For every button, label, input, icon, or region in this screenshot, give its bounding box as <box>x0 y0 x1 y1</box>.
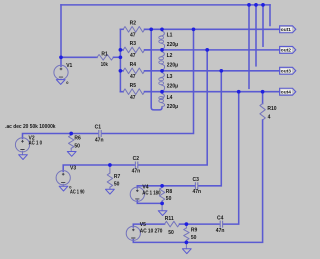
wire row1 <box>145 28 280 30</box>
svg-text:R7: R7 <box>114 174 121 180</box>
wire C3 to row3 <box>198 71 221 186</box>
node top rail c <box>261 3 265 7</box>
svg-text:50: 50 <box>74 144 80 150</box>
svg-text:47: 47 <box>130 53 136 59</box>
svg-text:AC 10 270: AC 10 270 <box>140 229 163 235</box>
resistor R8 <box>159 186 172 204</box>
wire top drop b <box>255 5 257 66</box>
wire V5 top <box>133 224 164 227</box>
wire V1 to top rail <box>60 5 62 66</box>
svg-text:L2: L2 <box>167 53 173 59</box>
wire V2 top <box>23 134 99 139</box>
ground R7 <box>106 189 115 194</box>
node L column row4 <box>160 90 164 94</box>
svg-text:out3: out3 <box>281 69 291 75</box>
wire V4 bottom <box>137 201 162 204</box>
svg-text:220µ: 220µ <box>167 104 178 110</box>
svg-text:V5: V5 <box>140 222 146 228</box>
voltage source V1 <box>54 63 73 79</box>
capacitor C4 <box>216 216 225 234</box>
svg-text:L1: L1 <box>167 33 173 39</box>
node bus-R4 <box>119 69 123 73</box>
wire row4 <box>145 91 280 93</box>
resistor R9 <box>184 224 198 242</box>
wire row3 <box>145 70 280 72</box>
svg-text:R4: R4 <box>130 62 137 68</box>
svg-text:R1: R1 <box>101 52 108 58</box>
svg-text:out4: out4 <box>281 90 291 96</box>
node row3 C3 tap <box>219 69 223 73</box>
svg-text:R2: R2 <box>130 21 137 27</box>
node C1 wire R6 tap <box>69 132 73 136</box>
node row1 C1 tap <box>192 27 196 31</box>
svg-text:47: 47 <box>130 95 136 101</box>
node L column row2 <box>160 48 164 52</box>
ground V2 <box>19 151 28 159</box>
wire right bus loop <box>151 29 162 110</box>
ground V3 <box>59 184 72 191</box>
wire top drop d <box>269 5 271 26</box>
voltage source V5 <box>126 222 162 241</box>
capacitor C2 <box>132 156 141 174</box>
resistor R5 <box>120 83 151 101</box>
svg-text:C1: C1 <box>95 124 102 130</box>
svg-text:50: 50 <box>168 230 174 236</box>
svg-text:4: 4 <box>268 114 271 120</box>
svg-text:V1: V1 <box>66 63 72 69</box>
resistor R10 <box>186 92 276 243</box>
node C3 wire R8 tap <box>160 184 164 188</box>
svg-text:C4: C4 <box>217 216 224 222</box>
inductor L3 <box>159 71 178 92</box>
svg-text:50: 50 <box>114 181 120 187</box>
svg-text:R11: R11 <box>165 216 174 222</box>
wire R9 to C4 <box>186 223 219 225</box>
wire V3 top <box>63 165 134 171</box>
flag out1 <box>280 26 296 33</box>
svg-text:out1: out1 <box>281 27 291 33</box>
wire C2 to row2 <box>138 50 207 165</box>
svg-text:AC 1 180: AC 1 180 <box>142 190 160 196</box>
node R9 bottom <box>185 241 189 245</box>
svg-text:47n: 47n <box>95 137 104 143</box>
wire top drop a <box>248 5 250 88</box>
resistor R3 <box>120 41 151 59</box>
node C2 wire R7 tap <box>108 163 112 167</box>
capacitor C1 <box>95 124 104 143</box>
svg-text:.ac dec 20 50k 10000k: .ac dec 20 50k 10000k <box>5 124 55 130</box>
node top rail b <box>254 3 258 7</box>
resistor R1 <box>61 52 120 68</box>
.ac directive text <box>5 124 55 130</box>
capacitor C3 <box>193 177 202 195</box>
node top rail a <box>247 3 251 7</box>
ground R8 <box>158 203 167 215</box>
svg-text:C2: C2 <box>133 156 140 162</box>
svg-text:R9: R9 <box>191 228 198 234</box>
node row4 R10 tap <box>261 90 265 94</box>
wire V4 top <box>137 186 195 188</box>
wire C4 to row4 <box>223 92 239 224</box>
wire top rail <box>61 4 270 6</box>
resistor R4 <box>120 62 151 80</box>
wire left bus <box>119 29 121 91</box>
svg-text:C3: C3 <box>193 177 200 183</box>
flag out4 <box>280 88 296 95</box>
svg-text:220µ: 220µ <box>167 42 178 48</box>
svg-text:47n: 47n <box>193 189 202 195</box>
svg-text:R8: R8 <box>166 189 173 195</box>
resistor R6 <box>69 135 82 152</box>
svg-text:47: 47 <box>130 33 136 39</box>
svg-text:R3: R3 <box>130 41 137 47</box>
svg-text:out2: out2 <box>281 48 291 54</box>
node row2 C2 tap <box>205 48 209 52</box>
wire V5 bottom <box>133 240 186 243</box>
svg-text:50: 50 <box>191 235 197 241</box>
inductor L2 <box>159 50 178 71</box>
ground R9 <box>182 242 191 253</box>
svg-text:AC 1 0: AC 1 0 <box>29 141 43 147</box>
svg-text:47: 47 <box>130 74 136 80</box>
wire C1 to row1 <box>102 29 194 133</box>
svg-text:V3: V3 <box>70 166 76 172</box>
svg-text:220µ: 220µ <box>167 62 178 68</box>
node row1 bus <box>149 27 153 31</box>
flag out2 <box>280 46 296 53</box>
resistor R2 <box>120 21 151 39</box>
node V1-R1 junction <box>59 55 63 59</box>
ground R6 <box>67 152 76 157</box>
inductor L4 <box>159 92 178 111</box>
voltage source V2 <box>15 136 42 152</box>
node bus-R1 <box>119 55 123 59</box>
svg-text:220µ: 220µ <box>167 83 178 89</box>
node V4 R8 bottom <box>160 202 164 206</box>
svg-text:R6: R6 <box>74 135 81 141</box>
svg-text:L3: L3 <box>167 74 173 80</box>
node L column row3 <box>160 69 164 73</box>
svg-text:R10: R10 <box>267 106 276 112</box>
svg-text:R5: R5 <box>130 83 137 89</box>
svg-text:47n: 47n <box>132 168 141 174</box>
flag out3 <box>280 67 296 74</box>
wire row2 <box>145 49 280 51</box>
voltage source V4 <box>130 185 160 202</box>
wire top drop c <box>262 5 264 46</box>
voltage source V3 <box>56 166 85 196</box>
resistor R7 <box>107 165 120 189</box>
svg-text:50: 50 <box>166 196 172 202</box>
resistor R11 <box>165 216 187 236</box>
inductor L1 <box>159 29 178 50</box>
ground V1 <box>56 79 69 85</box>
node bus-R3 <box>119 48 123 52</box>
svg-text:AC 1 90: AC 1 90 <box>70 189 85 195</box>
svg-text:47n: 47n <box>216 228 225 234</box>
svg-text:L4: L4 <box>167 95 173 101</box>
node row4 C4 tap <box>237 90 241 94</box>
node L column row1 <box>160 27 164 31</box>
node R11 R9 C4 <box>185 222 189 226</box>
svg-text:10k: 10k <box>101 62 108 68</box>
